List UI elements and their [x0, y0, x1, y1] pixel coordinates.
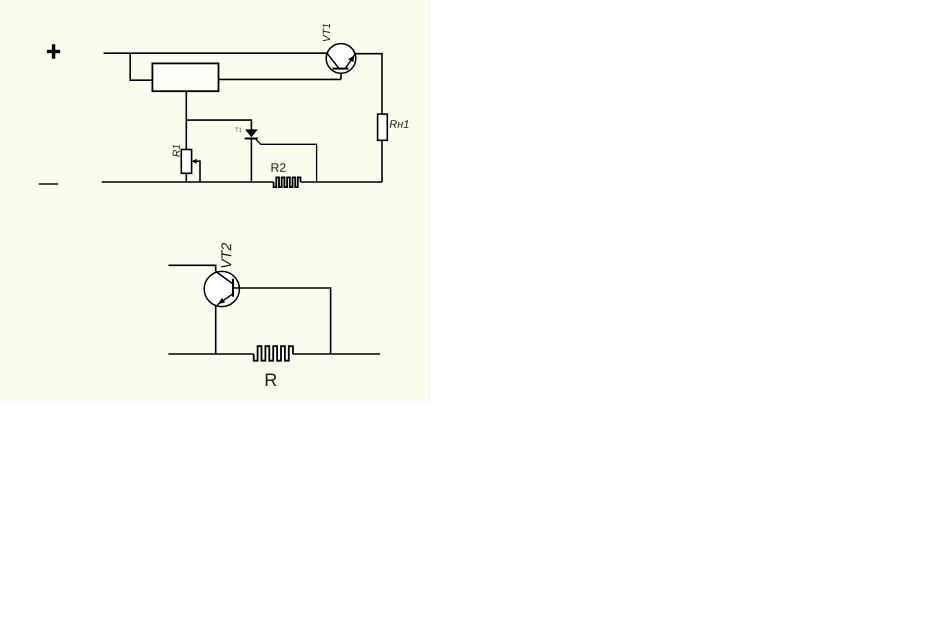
plus terminal (+) — [47, 44, 60, 59]
wire drop from top rail to regulator box left — [130, 53, 152, 80]
wire bottom rail right to Rн1 — [301, 181, 383, 183]
wire top rail from + to VT1 — [104, 52, 328, 54]
wire VT2 emitter lead to rail — [215, 305, 217, 354]
label VT2 — [221, 243, 231, 268]
minus terminal (-) — [39, 183, 58, 185]
wire box right to VT1 base — [219, 78, 342, 80]
schematic sheet background — [0, 0, 431, 401]
resistor Rн1 — [378, 114, 388, 140]
label R1 — [173, 145, 180, 157]
wire Rн1 bottom to rail — [381, 140, 383, 182]
label Rн1 — [390, 120, 409, 128]
label R2 — [272, 163, 286, 172]
label R — [266, 374, 277, 386]
thyristor T1 — [245, 129, 258, 182]
wire bottom rail left — [102, 181, 274, 183]
label T1 — [235, 128, 242, 132]
wire VT2 output to R right end — [233, 288, 331, 354]
resistor R (meander) — [254, 346, 293, 361]
label VT1 — [323, 24, 330, 41]
transistor VT1 — [326, 44, 356, 74]
wire branch to thyristor anode — [186, 120, 251, 130]
resistor R1 (rheostat) — [181, 150, 191, 183]
wire lower rail left — [168, 353, 253, 355]
wire VT1 base lead — [340, 69, 342, 80]
regulator box U1 — [152, 63, 218, 91]
R1 wiper arrow — [192, 159, 200, 182]
wire thyristor gate to R2 right end — [256, 139, 317, 182]
wire lower rail right — [293, 353, 380, 355]
wire box bottom lead to R1 — [185, 91, 187, 149]
resistor R2 (meander) — [274, 177, 301, 187]
wire VT1 emitter to Rн1 — [355, 54, 382, 114]
transistor VT2 — [204, 271, 239, 306]
wire VT2 collector input — [168, 265, 215, 271]
